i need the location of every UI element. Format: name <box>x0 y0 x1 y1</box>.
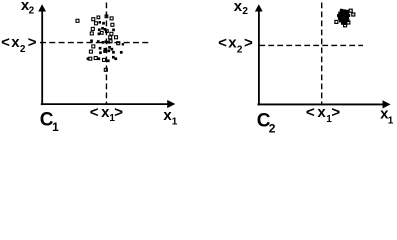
svg-text:>: > <box>331 104 340 121</box>
svg-text:>: > <box>114 104 123 121</box>
left chart y-axis <box>41 10 43 105</box>
svg-text:x: x <box>228 35 237 52</box>
svg-text:>: > <box>244 35 253 52</box>
hollow sample squares <box>76 15 120 71</box>
svg-text:1: 1 <box>172 116 178 127</box>
svg-text:1: 1 <box>52 120 59 134</box>
right chart y-axis arrowhead <box>255 4 263 11</box>
svg-text:2: 2 <box>269 121 276 135</box>
svg-text:>: > <box>28 34 37 51</box>
right chart x-axis arrowhead <box>383 100 391 108</box>
left chart vertical dashed mean line <box>105 3 107 104</box>
svg-text:x: x <box>11 34 20 51</box>
left chart y-axis arrowhead <box>38 4 46 11</box>
svg-text:<: < <box>218 35 227 52</box>
left chart x-axis arrowhead <box>167 100 175 108</box>
right chart y-axis <box>258 10 260 105</box>
svg-text:<: < <box>1 34 10 51</box>
svg-text:2: 2 <box>242 6 248 17</box>
right chart dense scatter cluster <box>335 9 355 27</box>
svg-text:<: < <box>306 104 315 121</box>
svg-text:2: 2 <box>20 44 26 55</box>
svg-text:1: 1 <box>388 116 394 127</box>
left chart x-axis <box>41 103 169 105</box>
right chart x-axis <box>258 103 384 105</box>
svg-text:x: x <box>317 104 326 121</box>
filled sample squares <box>87 21 125 62</box>
right chart horizontal dashed mean line <box>259 44 363 46</box>
left chart horizontal dashed mean line <box>40 42 149 44</box>
svg-text:2: 2 <box>29 5 35 16</box>
svg-text:2: 2 <box>237 44 243 55</box>
right chart vertical dashed mean line <box>321 3 323 105</box>
left chart scatter cluster <box>76 15 124 71</box>
svg-text:<: < <box>90 104 99 121</box>
